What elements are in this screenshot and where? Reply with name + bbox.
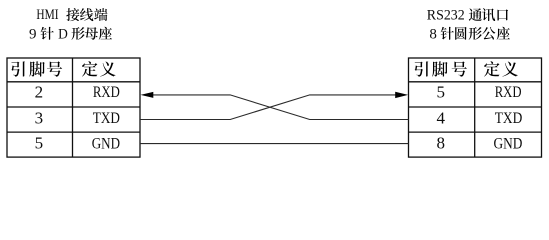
left table header: pin number column xyxy=(11,61,62,76)
svg-text:D: D xyxy=(58,27,68,43)
svg-text:RS232: RS232 xyxy=(427,7,465,24)
title RS232 port, line 1: RS232 Tong Xun Kou xyxy=(427,7,508,24)
title HMI connector, line 2: 9-pin D-type female socket xyxy=(29,27,112,43)
right table header: definition column xyxy=(484,61,518,76)
svg-text:8: 8 xyxy=(429,27,437,43)
wire: left TXD (pin 3) to right RXD (pin 5), crossover xyxy=(140,95,396,120)
right (RS232) pin table grid xyxy=(409,58,542,157)
svg-text:GND: GND xyxy=(92,135,120,153)
svg-text:5: 5 xyxy=(437,83,446,102)
svg-text:RXD: RXD xyxy=(495,84,522,102)
svg-text:8: 8 xyxy=(437,133,446,152)
wire: ground, left pin 5 to right pin 8 xyxy=(140,143,409,145)
svg-text:GND: GND xyxy=(493,135,522,152)
svg-text:5: 5 xyxy=(35,133,44,152)
left (HMI) pin table grid xyxy=(7,58,140,157)
arrowhead into left RXD xyxy=(141,92,154,98)
title HMI connector, line 1: HMI Jie Xian Duan xyxy=(36,6,107,23)
svg-text:HMI: HMI xyxy=(36,6,58,23)
svg-text:9: 9 xyxy=(29,27,37,43)
title RS232 port, line 2: 8-pin circular male socket xyxy=(429,27,510,43)
svg-text:RXD: RXD xyxy=(93,84,120,102)
svg-text:2: 2 xyxy=(35,83,44,102)
svg-text:TXD: TXD xyxy=(495,110,523,127)
svg-text:3: 3 xyxy=(35,109,44,128)
arrowhead into right RXD xyxy=(395,92,408,98)
svg-text:TXD: TXD xyxy=(93,110,121,127)
right table header: pin number column xyxy=(415,61,467,76)
svg-text:4: 4 xyxy=(437,109,446,128)
wire: left RXD (pin 2) to right TXD (pin 4), crossover xyxy=(146,95,409,120)
left table header: definition column xyxy=(82,61,116,76)
